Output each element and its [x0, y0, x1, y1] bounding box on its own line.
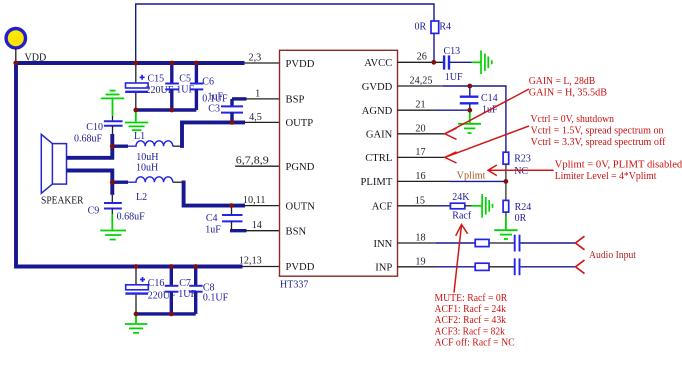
- wire pin 21 AGND: [398, 109, 470, 111]
- power port VDD: [6, 29, 25, 64]
- svg-text:C14: C14: [481, 93, 498, 104]
- svg-text:PVDD: PVDD: [286, 262, 315, 273]
- svg-text:10uH: 10uH: [136, 163, 158, 174]
- svg-text:1UF: 1UF: [445, 72, 463, 83]
- svg-text:10uH: 10uH: [136, 152, 158, 163]
- resistor R23: [503, 152, 509, 181]
- svg-text:C10: C10: [86, 122, 103, 133]
- svg-text:C16: C16: [148, 278, 165, 289]
- wire riser to R4: [136, 4, 434, 62]
- svg-text:6,7,8,9: 6,7,8,9: [236, 156, 269, 167]
- capacitor INN input: [515, 235, 576, 252]
- wire pin 10,11 stub: [245, 205, 280, 207]
- wire pin 12,13 stub: [243, 266, 280, 268]
- svg-text:ACF3: Racf = 82k: ACF3: Racf = 82k: [435, 326, 506, 337]
- svg-text:PGND: PGND: [286, 162, 315, 173]
- svg-text:GAIN = L, 28dB: GAIN = L, 28dB: [529, 76, 596, 87]
- svg-text:20: 20: [415, 123, 425, 134]
- svg-text:GVDD: GVDD: [362, 82, 393, 93]
- speaker LS1: [41, 134, 66, 193]
- wire BSN stub: [230, 229, 280, 232]
- annotation arrow CTRL: [445, 126, 529, 163]
- svg-text:Vplimt: Vplimt: [457, 170, 486, 181]
- svg-text:1uF: 1uF: [208, 92, 224, 103]
- svg-text:OUTN: OUTN: [286, 201, 316, 212]
- wire pin 15 ACF: [398, 205, 451, 207]
- svg-text:BSN: BSN: [286, 227, 307, 238]
- wire L1 to OUTP: [182, 122, 245, 147]
- svg-text:SPEAKER: SPEAKER: [41, 196, 84, 207]
- svg-text:C8: C8: [203, 282, 215, 293]
- ground rotated at Racf: [472, 194, 493, 218]
- wire pin 18 INN: [398, 242, 476, 244]
- ground inverted above C10: [101, 91, 124, 116]
- svg-text:INN: INN: [373, 239, 392, 250]
- wire VDD left vertical bus: [14, 61, 18, 268]
- wire pin 17 CTRL: [398, 156, 445, 158]
- ground below C15: [125, 110, 148, 130]
- svg-text:C4: C4: [206, 213, 218, 224]
- annotation arrow Vplimt: [488, 165, 554, 176]
- svg-text:R23: R23: [514, 154, 531, 165]
- svg-text:15: 15: [415, 195, 425, 206]
- svg-text:21: 21: [415, 100, 425, 111]
- svg-text:0R: 0R: [515, 213, 527, 224]
- svg-text:L1: L1: [134, 131, 145, 142]
- op-amp IC U1 HT337 body: [280, 50, 398, 276]
- capacitor C3: [221, 99, 243, 123]
- capacitor C7: [165, 267, 179, 314]
- wire pin 20 GAIN: [398, 133, 445, 135]
- svg-text:PLIMT: PLIMT: [361, 177, 393, 188]
- wire decoupling bottom rail: [136, 108, 197, 111]
- capacitor C15: [125, 63, 148, 110]
- svg-text:AVCC: AVCC: [364, 58, 392, 69]
- svg-text:18: 18: [415, 233, 425, 244]
- svg-text:0.1UF: 0.1UF: [203, 293, 229, 304]
- wire BSP stub: [232, 97, 280, 100]
- svg-text:1UF: 1UF: [178, 289, 196, 300]
- ground below C16: [125, 314, 147, 333]
- svg-text:2,3: 2,3: [249, 53, 262, 64]
- svg-text:C7: C7: [179, 278, 191, 289]
- svg-text:C9: C9: [88, 205, 100, 216]
- audio input arrow INN: [576, 236, 585, 250]
- audio input arrow INP: [576, 260, 585, 274]
- wire pin 24,25 GVDD: [398, 86, 506, 152]
- svg-text:C13: C13: [444, 46, 461, 57]
- capacitor C16: [125, 267, 148, 314]
- svg-text:Vctrl = 3.3V, spread spectrum: Vctrl = 3.3V, spread spectrum off: [531, 137, 667, 148]
- svg-text:BSP: BSP: [286, 95, 305, 106]
- resistor Racf 24K: [450, 203, 471, 209]
- svg-text:Vctrl = 1.5V, spread spectrum: Vctrl = 1.5V, spread spectrum on: [531, 126, 664, 137]
- wire pin 2,3 stub: [245, 62, 280, 64]
- svg-text:GAIN: GAIN: [366, 130, 393, 141]
- svg-text:ACF: ACF: [372, 202, 393, 213]
- svg-text:Vplimt = 0V, PLIMT disabled: Vplimt = 0V, PLIMT disabled: [555, 159, 682, 170]
- svg-text:GAIN = H, 35.5dB: GAIN = H, 35.5dB: [529, 88, 607, 99]
- svg-text:AGND: AGND: [362, 106, 393, 117]
- svg-text:R4: R4: [439, 21, 451, 32]
- resistor R4: [431, 21, 439, 62]
- svg-text:4,5: 4,5: [249, 112, 262, 123]
- svg-text:R24: R24: [515, 202, 532, 213]
- svg-text:Audio Input: Audio Input: [589, 250, 636, 261]
- svg-text:14: 14: [252, 220, 262, 231]
- annotation arrow Racf: [454, 225, 468, 293]
- wire VDD top bus: [14, 61, 244, 65]
- ground rotated at C13: [472, 51, 492, 75]
- svg-text:C5: C5: [179, 73, 191, 84]
- svg-text:0.68uF: 0.68uF: [117, 212, 146, 223]
- svg-text:HT337: HT337: [280, 280, 308, 291]
- svg-text:26: 26: [417, 52, 427, 63]
- resistor INP input: [475, 263, 514, 270]
- svg-text:L2: L2: [136, 192, 147, 203]
- svg-text:C15: C15: [148, 74, 165, 85]
- svg-text:C3: C3: [208, 104, 220, 115]
- wire speaker minus down to L2 node: [67, 171, 113, 195]
- svg-text:10,11: 10,11: [243, 195, 266, 206]
- svg-text:C6: C6: [202, 76, 214, 87]
- svg-text:ACF off: Racf = NC: ACF off: Racf = NC: [435, 338, 515, 349]
- wire speaker plus to L1 node: [67, 134, 113, 158]
- wire bottom decoupling rail: [136, 312, 196, 315]
- inductor L2: [112, 177, 183, 182]
- wire pin 4,5 stub: [245, 121, 280, 123]
- svg-text:1: 1: [255, 88, 260, 99]
- capacitor C6: [190, 61, 203, 110]
- wire PGND stub: [235, 165, 279, 167]
- svg-text:12,13: 12,13: [239, 256, 262, 267]
- svg-text:Vctrl = 0V, shutdown: Vctrl = 0V, shutdown: [531, 114, 615, 125]
- ground below C9: [100, 214, 126, 240]
- junction dots right area: [431, 60, 508, 184]
- svg-text:0R: 0R: [415, 21, 427, 32]
- svg-text:19: 19: [415, 256, 425, 267]
- svg-text:24K: 24K: [452, 192, 470, 203]
- inductor L1: [112, 141, 182, 146]
- capacitor INP input: [515, 258, 576, 275]
- wire L2 to OUTN: [184, 181, 245, 206]
- capacitor C13: [444, 55, 471, 69]
- capacitor C4: [222, 206, 243, 231]
- svg-text:16: 16: [415, 171, 425, 182]
- svg-text:INP: INP: [375, 263, 392, 274]
- svg-text:0.68uF: 0.68uF: [74, 134, 103, 145]
- wire pin 16 PLIMT: [398, 180, 506, 182]
- junction dots left area: [110, 120, 235, 316]
- ground AGND below C14: [458, 110, 481, 133]
- capacitor C8: [189, 267, 202, 314]
- svg-text:OUTP: OUTP: [286, 118, 314, 129]
- svg-text:17: 17: [415, 147, 425, 158]
- svg-text:24,25: 24,25: [410, 76, 433, 87]
- capacitor C9: [104, 195, 122, 214]
- svg-text:ACF2: Racf = 43k: ACF2: Racf = 43k: [435, 315, 507, 326]
- ground below R24: [494, 217, 518, 240]
- wire PVDD bottom bus: [14, 265, 242, 269]
- svg-text:MUTE: Racf = 0R: MUTE: Racf = 0R: [435, 293, 508, 304]
- capacitor C5: [165, 61, 179, 110]
- svg-text:NC: NC: [514, 166, 528, 177]
- annotation arrow GAIN: [445, 89, 529, 139]
- capacitor C14: [460, 86, 479, 110]
- svg-text:Limiter Level = 4*Vplimt: Limiter Level = 4*Vplimt: [555, 171, 657, 182]
- svg-text:PVDD: PVDD: [286, 59, 315, 70]
- svg-text:Racf: Racf: [452, 211, 472, 222]
- resistor INN input: [475, 239, 514, 246]
- svg-text:CTRL: CTRL: [365, 153, 392, 164]
- wire pin 26 AVCC: [398, 61, 444, 63]
- capacitor C10: [104, 116, 123, 134]
- resistor R24: [503, 181, 509, 216]
- svg-text:ACF1: Racf = 24k: ACF1: Racf = 24k: [435, 304, 507, 315]
- wire pin 19 INP: [398, 266, 476, 268]
- junction dots on VDD bus: [13, 61, 198, 113]
- svg-text:1uF: 1uF: [205, 225, 221, 236]
